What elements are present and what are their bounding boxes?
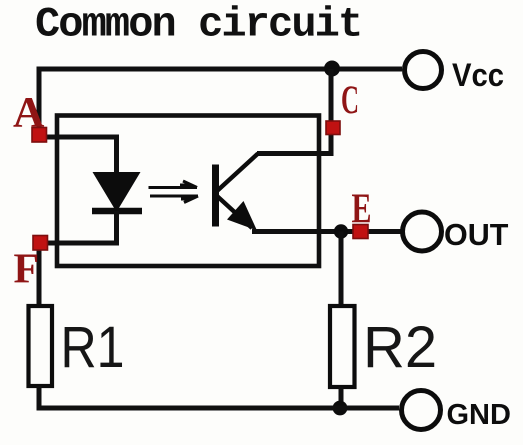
svg-text:Common circuit: Common circuit <box>35 1 361 49</box>
svg-text:F: F <box>14 247 40 293</box>
terminal circle GND <box>402 391 441 430</box>
light emission arrow 1 <box>149 181 198 188</box>
node junction dot at GND rail <box>333 401 348 416</box>
resistor R2 body <box>330 306 355 387</box>
wire: R1 bottom lead and GND rail to GND terminal <box>39 386 399 408</box>
node C square <box>326 121 340 135</box>
transistor Q1 collector diagonal <box>217 154 258 192</box>
wire: node A to LED anode <box>44 137 117 174</box>
svg-text:R2: R2 <box>363 315 437 380</box>
svg-text:OUT: OUT <box>444 218 509 252</box>
svg-text:A: A <box>13 89 45 137</box>
wire: C branch down from rail to collector <box>257 69 331 154</box>
terminal circle Vcc <box>405 52 442 89</box>
svg-text:R1: R1 <box>61 315 125 380</box>
transistor Q1 emitter arrowhead <box>227 201 257 231</box>
optocoupler box U1 <box>57 116 319 267</box>
node A square <box>32 128 47 143</box>
wire: top rail from node A up and across to Vcc <box>39 69 402 131</box>
svg-text:E: E <box>352 187 372 233</box>
transistor Q1 base bar <box>212 165 219 227</box>
svg-text:Vcc: Vcc <box>452 57 504 93</box>
terminal circle OUT <box>403 212 442 251</box>
node F square <box>33 236 48 251</box>
LED cathode bar <box>92 208 142 215</box>
wire: R2 top lead <box>339 232 344 307</box>
wire: emitter out to OUT terminal <box>252 229 402 234</box>
svg-text:C: C <box>341 77 359 122</box>
wire: R2 bottom lead <box>339 387 344 408</box>
resistor R1 body <box>29 306 53 386</box>
wire: node F down to R1 <box>37 249 42 306</box>
node junction dot at Vcc rail / C branch <box>324 61 340 77</box>
wire: LED cathode down and left to node F <box>46 211 117 243</box>
transistor Q1 emitter diagonal <box>217 196 252 228</box>
node junction dot at E / R2 tap <box>334 224 348 238</box>
light emission arrow 2 <box>150 196 198 203</box>
svg-text:GND: GND <box>447 399 511 431</box>
node E square <box>353 225 368 239</box>
LED D1 triangle (anode top, cathode down) <box>93 172 141 212</box>
